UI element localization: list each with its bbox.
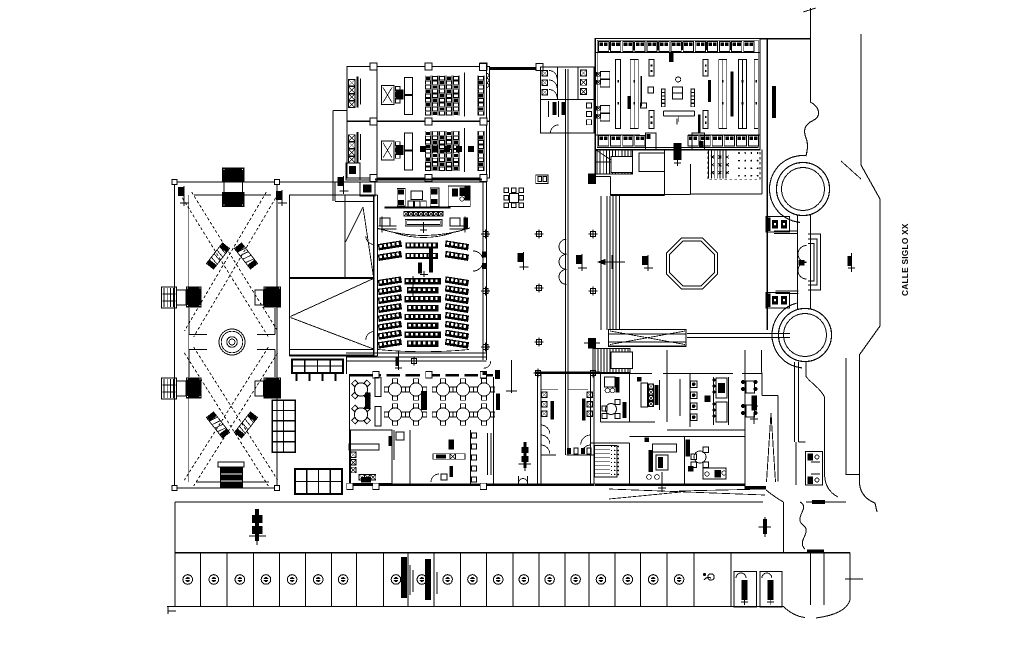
svg-text:CALLE SIGLO XX: CALLE SIGLO XX (900, 223, 910, 296)
